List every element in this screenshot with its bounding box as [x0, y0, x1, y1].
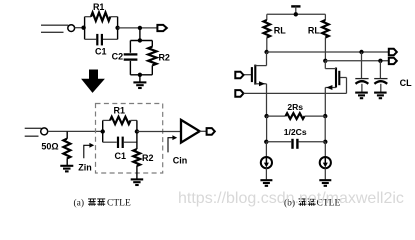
svg-text:(a): (a) [74, 198, 85, 209]
node D left rail [102, 120, 104, 142]
node G junction dot [323, 140, 327, 144]
capacitor CL right [374, 61, 387, 92]
output terminal out+ [389, 49, 397, 55]
node I junction dot (CL tap -) [378, 59, 382, 63]
capacitor CL left [355, 52, 368, 92]
ground (50-ohm) [60, 166, 73, 172]
svg-text:C1: C1 [115, 151, 127, 161]
resistor R2 (top circuit) [148, 41, 156, 75]
svg-text:CL: CL [400, 78, 412, 88]
supply rail [267, 13, 326, 15]
wire S1 down [266, 116, 268, 142]
ground (top circuit) [133, 75, 146, 88]
svg-text:Cin: Cin [173, 155, 188, 165]
capacitor 1/2Cs [266, 139, 325, 149]
current source I2 [320, 142, 331, 180]
node H junction dot (CL tap +) [359, 50, 363, 54]
node S1 junction dot [264, 114, 268, 118]
supply junction dot [294, 12, 298, 16]
wire input to node A [75, 27, 85, 29]
node D junction dot [101, 129, 105, 133]
svg-text:2Rs: 2Rs [287, 102, 303, 112]
node B junction dot [115, 26, 119, 30]
wire box to buffer [137, 131, 181, 133]
input connector J1 (top-left circuit) [41, 25, 75, 33]
ground (box R2) [131, 179, 144, 185]
capacitor C1 (top circuit) [85, 34, 118, 46]
svg-text:R2: R2 [158, 52, 170, 62]
svg-text:RL: RL [308, 26, 320, 36]
caption (a) [74, 198, 131, 209]
resistor R1 (top circuit) [85, 13, 118, 21]
node OUTN junction dot [323, 59, 327, 63]
wire node C down [139, 28, 141, 41]
caption (b) [284, 198, 340, 209]
ground (CL right) [374, 93, 387, 99]
input terminal in+ [235, 72, 243, 79]
svg-text:R1: R1 [114, 106, 126, 116]
output terminal (bottom circuit) [207, 128, 215, 135]
node B right rail [117, 17, 119, 40]
svg-text:C2: C2 [112, 51, 124, 61]
output terminal out- [389, 58, 397, 64]
transistor Q2 (right NMOS) [325, 61, 339, 116]
junction dot C2/R2 bottom [138, 73, 142, 77]
wire C2/R2 top bar [130, 40, 152, 42]
node A left rail [84, 17, 86, 40]
wire in- to Q2 gate [244, 78, 347, 94]
svg-text:https://blog.csdn.net/maxwell2: https://blog.csdn.net/maxwell2ic [178, 190, 404, 207]
current source I1 [261, 142, 272, 180]
resistor R2 (box) [133, 149, 140, 178]
ground (CL left) [355, 93, 368, 99]
svg-text:CTLE: CTLE [107, 199, 131, 209]
wire out- to terminal [325, 60, 389, 62]
wire input to box [48, 130, 103, 132]
resistor 2Rs [267, 113, 326, 119]
ground (I2) [319, 180, 331, 186]
svg-text:R2: R2 [142, 153, 154, 163]
Cin annotation arrow [168, 135, 177, 152]
wire node B to output [118, 27, 158, 29]
node E right rail [136, 120, 138, 149]
output terminal (top circuit) [157, 25, 166, 31]
svg-text:50Ω: 50Ω [41, 142, 58, 152]
wire out+ to terminal [267, 51, 389, 53]
transistor Q1 (left NMOS) [243, 52, 266, 116]
wire buffer to output [200, 130, 207, 132]
Zin annotation arrow [84, 143, 94, 158]
svg-text:1/2Cs: 1/2Cs [284, 127, 307, 137]
resistor R1 (box) [103, 117, 137, 124]
capacitor C1 (box) [103, 137, 137, 148]
junction dot C2/R2 top [138, 38, 142, 42]
svg-text:Zin: Zin [78, 162, 92, 172]
resistor RL left [264, 14, 271, 52]
resistor R50 50-ohm termination [63, 131, 70, 165]
wire C2/R2 bottom bar [130, 74, 152, 76]
node S2 junction dot [323, 114, 327, 118]
svg-text:C1: C1 [95, 47, 107, 57]
svg-text:R1: R1 [93, 2, 105, 12]
node C junction dot (branch to C2/R2) [138, 26, 142, 30]
node A junction dot [81, 26, 85, 30]
input connector J2 (bottom circuit) [25, 128, 48, 136]
block arrow (transform) [81, 70, 105, 93]
node OUTP junction dot [264, 50, 268, 54]
svg-text:RL: RL [274, 26, 286, 36]
wire S2 down [324, 116, 326, 142]
op-amp buffer U1 [181, 120, 200, 143]
ground (I1) [260, 180, 272, 186]
resistor RL right [322, 14, 329, 61]
capacitor C2 [124, 41, 138, 75]
node F junction dot [264, 140, 268, 144]
VDD supply bar [291, 6, 300, 14]
node E junction dot [135, 129, 139, 133]
input terminal in- [235, 90, 243, 97]
dashed box (CTLE network) [96, 104, 163, 174]
